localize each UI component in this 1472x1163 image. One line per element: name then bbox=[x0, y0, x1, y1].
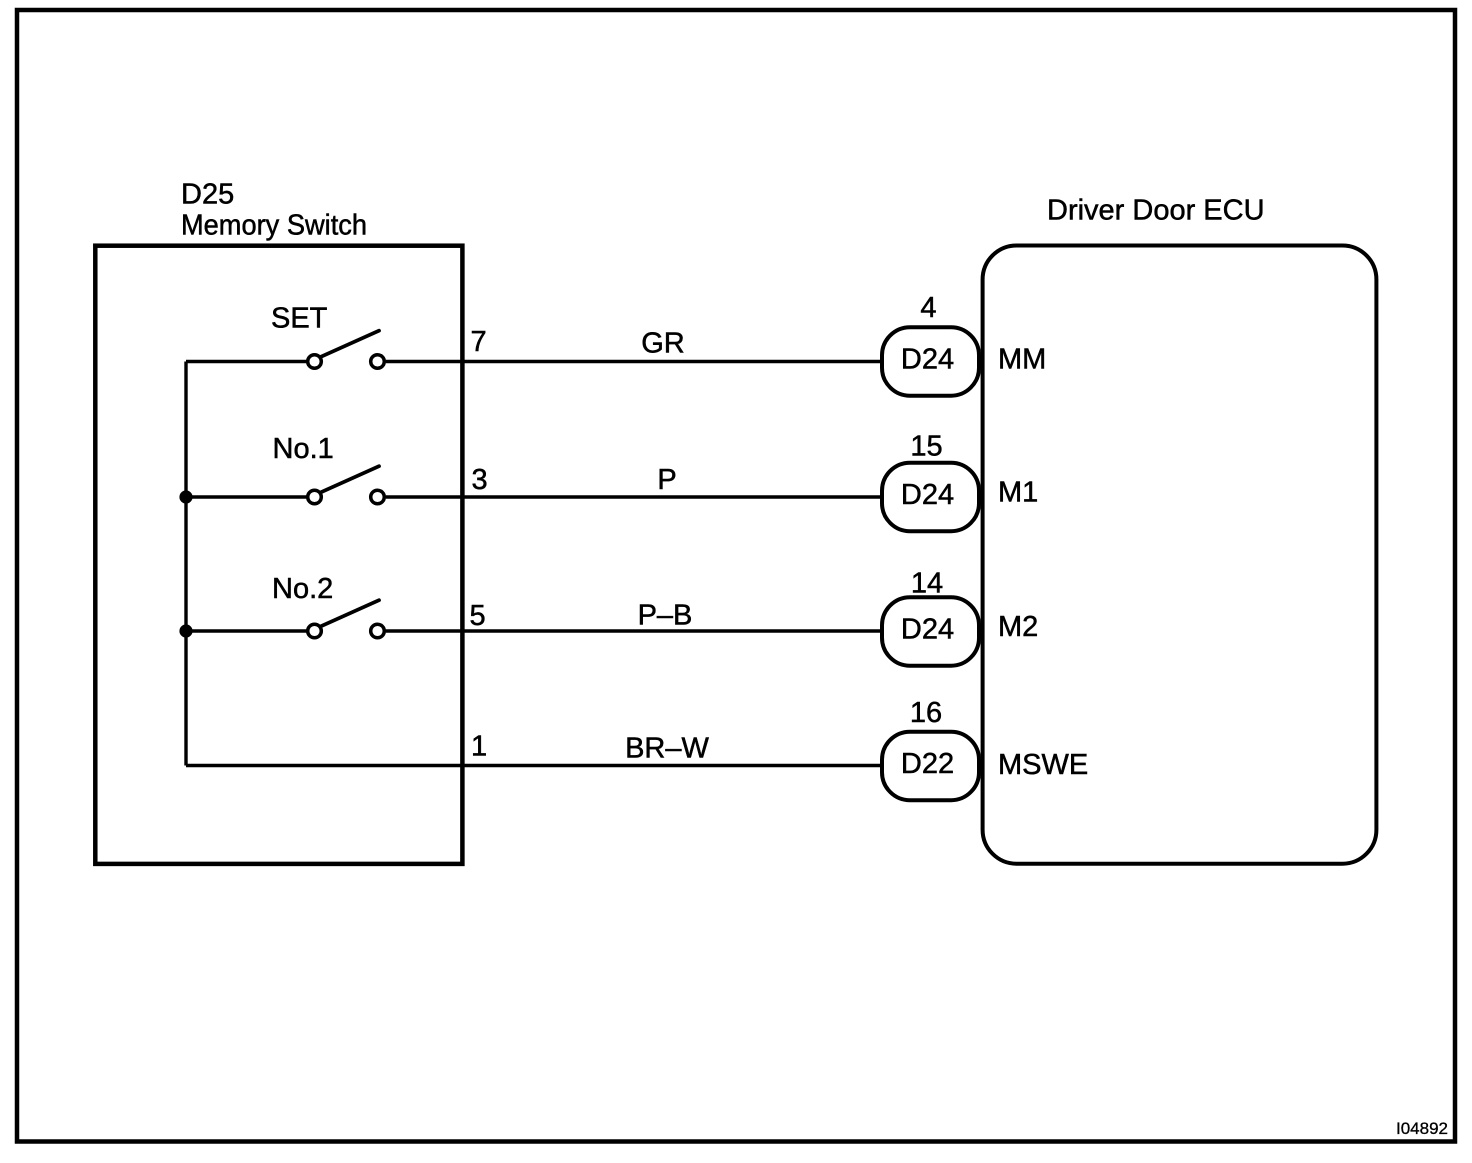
memory switch D25 enclosure box bbox=[95, 246, 462, 864]
svg-text:BR–W: BR–W bbox=[625, 733, 709, 765]
svg-text:D25: D25 bbox=[181, 178, 234, 210]
wire: bus to No.1 switch bbox=[186, 495, 307, 498]
switch No.1 blade bbox=[321, 466, 379, 492]
wire: bus to SET switch bbox=[186, 360, 307, 363]
svg-text:7: 7 bbox=[471, 326, 487, 358]
svg-text:P–B: P–B bbox=[638, 600, 693, 632]
svg-text:D22: D22 bbox=[901, 748, 954, 780]
svg-text:D24: D24 bbox=[901, 613, 954, 645]
svg-text:D24: D24 bbox=[901, 479, 954, 511]
connector D24 pin 14 oval bbox=[882, 597, 979, 666]
wire BR-W: bus to connector D22 bbox=[186, 764, 881, 767]
svg-text:1: 1 bbox=[471, 731, 487, 763]
connector D22 pin 16 oval bbox=[882, 732, 979, 801]
wire GR: SET to connector bbox=[386, 360, 881, 363]
svg-text:3: 3 bbox=[472, 464, 488, 496]
wire: bus to No.2 switch bbox=[186, 629, 307, 632]
svg-text:16: 16 bbox=[910, 697, 942, 729]
svg-text:No.2: No.2 bbox=[272, 573, 333, 605]
junction node at No.2 bbox=[179, 624, 192, 637]
svg-text:GR: GR bbox=[641, 328, 685, 360]
svg-text:MSWE: MSWE bbox=[998, 749, 1088, 781]
svg-text:D24: D24 bbox=[901, 343, 954, 375]
svg-text:Memory Switch: Memory Switch bbox=[181, 209, 367, 241]
svg-text:M1: M1 bbox=[998, 477, 1038, 509]
svg-text:No.1: No.1 bbox=[273, 433, 334, 465]
wire: vertical bus inside D25 bbox=[184, 362, 187, 766]
switch No.1 contact circles bbox=[308, 490, 322, 504]
svg-text:4: 4 bbox=[920, 292, 936, 324]
switch SET contact circles bbox=[308, 355, 322, 369]
switch No.2 blade bbox=[321, 600, 379, 626]
ECU U1 Driver Door ECU box bbox=[983, 246, 1377, 864]
wire P-B: No.2 to connector bbox=[386, 629, 881, 632]
connector D24 pin 4 oval bbox=[882, 327, 979, 396]
connector D24 pin 15 oval bbox=[882, 463, 979, 532]
svg-text:MM: MM bbox=[998, 344, 1046, 376]
svg-text:M2: M2 bbox=[998, 611, 1038, 643]
svg-text:SET: SET bbox=[271, 303, 328, 335]
wire P: No.1 to connector bbox=[386, 495, 881, 498]
svg-text:15: 15 bbox=[910, 430, 942, 462]
switch SET blade bbox=[321, 331, 379, 357]
svg-text:14: 14 bbox=[911, 567, 943, 599]
svg-text:5: 5 bbox=[470, 600, 486, 632]
svg-text:I04892: I04892 bbox=[1396, 1119, 1448, 1138]
junction node at No.1 bbox=[179, 490, 192, 503]
svg-text:P: P bbox=[657, 464, 676, 496]
switch No.2 contact circles bbox=[308, 624, 322, 638]
svg-text:Driver Door ECU: Driver Door ECU bbox=[1047, 195, 1265, 227]
